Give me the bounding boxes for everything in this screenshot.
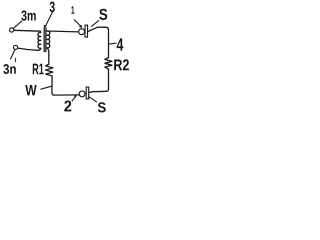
leader from label 2 to detector 2: [72, 96, 76, 101]
transformer T core: [43, 28, 45, 52]
leader from label 3m to terminal: [14, 21, 23, 28]
terminal 3n: [14, 45, 18, 49]
transformer T secondary winding: [47, 31, 50, 48]
prime tick of 3n: [14, 58, 17, 62]
wire terminal 3n to primary bottom: [18, 48, 38, 50]
wire terminal 3m to primary top: [14, 29, 40, 32]
label 3m: [21, 10, 36, 20]
label 1: [71, 6, 74, 13]
label R2: [114, 59, 129, 70]
label W: [25, 85, 36, 95]
detector 2 bar electrode: [86, 87, 89, 99]
detector 2 cat-whisker circle: [79, 91, 85, 97]
leader from terminal 3n to label: [11, 50, 15, 59]
arrowhead of label 2 leader: [74, 95, 77, 98]
wire R2 down to bottom right corner and to detector 2: [89, 69, 109, 92]
wire secondary top to detector 1: [47, 30, 79, 33]
arrowhead of label 1 arrow: [79, 25, 83, 28]
label 3n: [3, 64, 16, 74]
leader from wire to label 4: [109, 42, 116, 45]
wire detector 2 to bottom left corner and up: [52, 78, 79, 96]
terminal 3m: [10, 28, 14, 32]
label S top: [99, 9, 107, 20]
label R1: [33, 64, 44, 75]
wire detector 1 to top right corner and down: [88, 27, 109, 57]
detector 1 cat-whisker circle: [79, 29, 85, 35]
label 3: [50, 2, 55, 13]
arrowhead of label 3 arrow: [44, 25, 47, 28]
leader from label S top to detector 1 bar: [92, 21, 99, 27]
transformer T primary winding: [38, 31, 41, 50]
wire secondary bottom down to R1: [47, 48, 49, 64]
arrow from label 1 to detector 1: [74, 20, 81, 27]
label 4: [117, 38, 124, 50]
label 2: [64, 100, 71, 111]
leader from detector 2 bar to label S bottom: [89, 96, 97, 102]
detector 1 bar electrode: [85, 25, 88, 37]
label S bottom: [98, 102, 106, 112]
resistor R2: [105, 58, 112, 70]
leader from label W to wire: [41, 86, 52, 89]
resistor R1: [46, 64, 53, 77]
arrow from label 3 to transformer: [45, 12, 52, 26]
